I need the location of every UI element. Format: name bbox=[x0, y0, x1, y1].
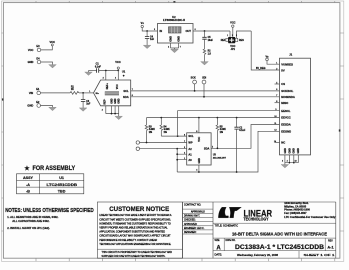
svg-text:LTC2451CDDB: LTC2451CDDB bbox=[47, 183, 78, 187]
svg-text:HOWEVER, IT REMAINS THE CUSTOM: HOWEVER, IT REMAINS THE CUSTOMER'S RESPO… bbox=[99, 222, 171, 225]
wire REF+ pin 3 bbox=[103, 71, 106, 81]
svg-text:A-1: A-1 bbox=[327, 244, 334, 249]
resistor R3 bbox=[145, 118, 155, 143]
wire SDA U1 pin 6 to J1 bbox=[131, 95, 280, 97]
logo LT swoosh bbox=[218, 207, 241, 218]
power Vs (J1 pin 1) bbox=[266, 55, 270, 60]
ground (C5 R2) bbox=[201, 62, 209, 65]
wire VCC pin 4 bbox=[115, 71, 118, 81]
jumper JP1 bbox=[221, 35, 245, 51]
power Vs (U2 input) bbox=[141, 22, 145, 28]
wire E2 to ground bbox=[41, 106, 53, 108]
svg-text:APPROVED:: APPROVED: bbox=[184, 223, 198, 226]
title block frame bbox=[183, 202, 336, 258]
svg-text:DWG NO.: DWG NO. bbox=[226, 240, 236, 242]
svg-text:U1: U1 bbox=[59, 176, 64, 180]
svg-text:Fax: (408)434-0507: Fax: (408)434-0507 bbox=[284, 212, 307, 215]
wire E3 to VCC bbox=[41, 46, 53, 50]
U2 GND pins to ground bbox=[168, 43, 181, 49]
date sheet row bbox=[215, 253, 336, 257]
resistor R2 bbox=[203, 49, 211, 62]
ground (E2) bbox=[49, 107, 57, 110]
wire JP1 right to 5V_REG corner bbox=[237, 31, 252, 38]
svg-text:-A: -A bbox=[26, 183, 30, 187]
capacitor C5 bbox=[202, 31, 213, 49]
ground (C3) bbox=[79, 108, 87, 111]
svg-text:APPROVALS: APPROVALS bbox=[191, 210, 205, 213]
resistor R4 bbox=[160, 118, 170, 137]
wire EEGND bus to J1 pin 12 bbox=[177, 131, 279, 173]
U3 pin numbers bbox=[184, 131, 213, 172]
svg-text:SHEET 1 OF 1: SHEET 1 OF 1 bbox=[304, 253, 336, 257]
svg-text:DESIGNER:: DESIGNER: bbox=[184, 232, 197, 234]
svg-text:THIS CIRCUIT IS PROPRIETARY TO: THIS CIRCUIT IS PROPRIETARY TO LINEAR TE… bbox=[102, 251, 173, 254]
wire U3 VCC pin 8 bbox=[198, 118, 200, 133]
approvals column text bbox=[184, 204, 205, 234]
svg-text:1. ALL RESISTORS ARE IN OHMS,: 1. ALL RESISTORS ARE IN OHMS, 0402. bbox=[7, 215, 58, 219]
wire Vs to U2 IN pin 3 bbox=[142, 28, 157, 32]
connector J1 bbox=[280, 52, 311, 154]
svg-text:CHECKED:: CHECKED: bbox=[184, 220, 196, 222]
svg-text:CIRCUIT BOARD LAYOUT MAY SIGNI: CIRCUIT BOARD LAYOUT MAY SIGNIFICANTLY A… bbox=[99, 235, 171, 238]
notes text bbox=[5, 208, 94, 230]
turret E2 bbox=[27, 100, 40, 108]
turret A2 bbox=[136, 147, 139, 150]
wire 5V_REG to J1 pin 2 bbox=[251, 31, 279, 70]
svg-text:VERIFY PROPER AND RELIABLE OPE: VERIFY PROPER AND RELIABLE OPERATION IN … bbox=[99, 227, 168, 230]
wire EESCL to J1 pin 9 bbox=[178, 111, 280, 136]
svg-text:SUPPLIED FOR USE WITH LINEAR T: SUPPLIED FOR USE WITH LINEAR TECHNOLOGY … bbox=[102, 255, 166, 258]
wire U3 SDA / EESDA to J1 pin 11 bbox=[211, 125, 279, 150]
J1 bottom GND pins bbox=[282, 155, 298, 165]
J1 stub pin 8 MISO bbox=[275, 102, 280, 104]
svg-text:ALL CAPACITORS ARE 0402.: ALL CAPACITORS ARE 0402. bbox=[12, 219, 49, 223]
svg-text:CUSTOMER NOTICE: CUSTOMER NOTICE bbox=[109, 206, 169, 213]
power VCC (JP1) bbox=[230, 21, 235, 37]
wire U3 SCL net bbox=[161, 135, 186, 137]
turret E4 bbox=[28, 56, 41, 64]
svg-text:REV: REV bbox=[328, 241, 333, 243]
wire E4 to ground bbox=[41, 62, 53, 65]
logo wordmark bbox=[244, 208, 273, 221]
turret WP bbox=[136, 141, 139, 144]
svg-text:ENGINEER: LEO C.: ENGINEER: LEO C. bbox=[184, 228, 205, 230]
svg-text:-B: -B bbox=[26, 190, 30, 194]
svg-text:TITLE: SCHEMATIC: TITLE: SCHEMATIC bbox=[215, 224, 239, 228]
capacitor C1 bbox=[89, 63, 120, 73]
size dwg rev row bbox=[215, 240, 335, 251]
resistor R5 bbox=[216, 118, 226, 149]
wire E1 to R1 bbox=[41, 92, 71, 94]
svg-text:CONTRACT NO.: CONTRACT NO. bbox=[184, 204, 201, 207]
wire EEVCC rail bbox=[147, 117, 280, 119]
wire R1 to U1 IN pin 1 bbox=[79, 91, 94, 94]
svg-text:LINEAR TECHNOLOGY HAS MADE A B: LINEAR TECHNOLOGY HAS MADE A BEST EFFORT… bbox=[99, 214, 171, 217]
power VCC (U1) bbox=[115, 60, 121, 70]
svg-text:★: ★ bbox=[24, 166, 30, 172]
svg-text:A: A bbox=[216, 245, 221, 251]
wire JP1 left stub bbox=[229, 31, 231, 37]
assembly note star bbox=[24, 165, 76, 172]
wire Vs to J1 pin 1 bbox=[267, 61, 280, 64]
svg-text:TECHNOLOGY APPLICATIONS ENGINE: TECHNOLOGY APPLICATIONS ENGINEERING FOR … bbox=[99, 243, 171, 246]
turret E3 bbox=[28, 44, 41, 52]
resistor R1 bbox=[70, 86, 79, 94]
svg-text:DC1383A-1 * LTC2451CDDB: DC1383A-1 * LTC2451CDDB bbox=[235, 244, 324, 251]
ground (J1) bbox=[281, 165, 289, 168]
svg-text:CIRCUIT THAT MEETS CUSTOMER-SU: CIRCUIT THAT MEETS CUSTOMER-SUPPLIED SPE… bbox=[99, 218, 171, 221]
U1 bottom pins to ground bbox=[102, 106, 119, 116]
ground (U1) bbox=[115, 116, 123, 119]
wire WP net bbox=[140, 142, 187, 144]
wire U3 GND pin 4 bbox=[198, 165, 200, 172]
svg-text:LTC Confidential-For Customer: LTC Confidential-For Customer Use Only bbox=[284, 216, 336, 219]
svg-text:DRAWN: KIM T.: DRAWN: KIM T. bbox=[184, 215, 200, 218]
J1 stub pin 5 CS bbox=[275, 83, 280, 85]
svg-text:NOTES: UNLESS OTHERWISE SPECI: NOTES: UNLESS OTHERWISE SPECIFIED bbox=[5, 208, 94, 214]
svg-text:PERFORMANCE OR RELIABILITY. CO: PERFORMANCE OR RELIABILITY. CONTACT LINE… bbox=[99, 239, 157, 242]
wire A2 net bbox=[140, 148, 187, 150]
svg-text:ASSY: ASSY bbox=[23, 176, 34, 180]
capacitor C2 bbox=[234, 118, 245, 172]
power VCC (E3) bbox=[50, 40, 56, 46]
ground (C1 left) bbox=[85, 71, 93, 76]
regulator U2 LT6660HCDC-5 bbox=[158, 15, 194, 43]
wire A1 A0 tie to ground bus bbox=[176, 149, 186, 172]
turret E1 bbox=[29, 87, 41, 95]
svg-text:TBD: TBD bbox=[58, 190, 66, 194]
svg-text:FOR ASSEMBLY: FOR ASSEMBLY bbox=[33, 165, 76, 172]
assembly table bbox=[17, 174, 84, 194]
svg-text:DATE:: DATE: bbox=[215, 253, 223, 257]
address block bbox=[284, 202, 336, 219]
svg-text:2. INSTALL SHUNT ON JP1 (1&2): 2. INSTALL SHUNT ON JP1 (1&2). bbox=[7, 226, 50, 230]
wire U2 OUT pin 6 bbox=[193, 29, 230, 32]
ground (U2) bbox=[171, 49, 179, 52]
svg-text:Wednesday, February 20, 2008: Wednesday, February 20, 2008 bbox=[237, 253, 278, 257]
zone label dots bbox=[2, 1, 340, 131]
customer notice box bbox=[97, 202, 182, 258]
svg-text:TECHNOLOGY: TECHNOLOGY bbox=[244, 217, 269, 222]
svg-text:APPLICATION. COMPONENT SUBSTIT: APPLICATION. COMPONENT SUBSTITUTION AND … bbox=[99, 231, 165, 234]
svg-text:SIZE: SIZE bbox=[215, 240, 221, 242]
turret SCK bbox=[191, 77, 197, 92]
eeprom U3 24LC025 bbox=[187, 133, 227, 165]
wire SCL U1 pin 7 to J1 bbox=[131, 89, 280, 91]
svg-text:16-BIT DELTA SIGMA ADC WITH I2: 16-BIT DELTA SIGMA ADC WITH I2C INTERFAC… bbox=[232, 231, 328, 237]
J1 pin numbers bbox=[274, 63, 277, 143]
capacitor C4 bbox=[145, 31, 155, 45]
turret SDI bbox=[202, 77, 206, 98]
ground (E4) bbox=[49, 65, 57, 68]
capacitor C3 bbox=[81, 93, 91, 108]
ground (C4) bbox=[143, 45, 151, 48]
adc U1 LTC2451 bbox=[94, 69, 131, 105]
title row bbox=[215, 224, 328, 238]
J1 stub pin 14 NC bbox=[275, 142, 280, 144]
